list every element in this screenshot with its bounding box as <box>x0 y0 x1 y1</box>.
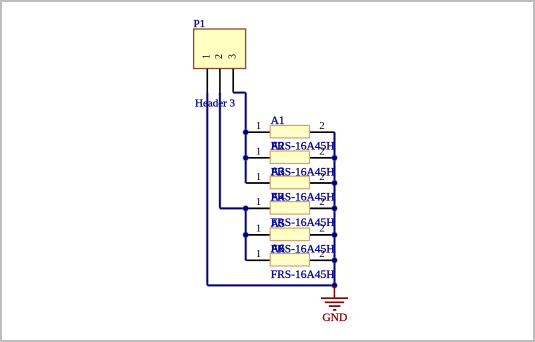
junction right bus row4 <box>331 205 338 212</box>
wire from P1 pin 2 vertical <box>218 93 221 208</box>
fuse A2 left pin 1 wire <box>246 157 271 159</box>
ground bar 1 <box>321 297 348 299</box>
svg-text:1: 1 <box>256 146 262 158</box>
svg-text:A4: A4 <box>271 191 285 203</box>
junction left bus row4 <box>242 205 249 212</box>
wire P1 pin 2 horizontal to lower bus <box>220 207 246 210</box>
fuse A6 right pin 2 wire <box>310 259 335 261</box>
ground bar 3 <box>329 305 341 307</box>
fuse A4 left pin 1 wire <box>246 207 271 209</box>
fuse A3 body <box>270 176 309 189</box>
svg-text:3: 3 <box>227 54 238 59</box>
ground symbol stem <box>333 285 335 298</box>
fuse A2 right pin 2 wire <box>310 157 335 159</box>
svg-text:1: 1 <box>256 248 262 260</box>
fuse A1 left pin 1 wire <box>246 131 271 133</box>
ground bar 2 <box>325 301 344 303</box>
junction GND node <box>331 282 338 289</box>
junction left bus row2 <box>242 154 249 161</box>
svg-text:2: 2 <box>319 196 325 208</box>
junction right bus row6 <box>331 257 338 264</box>
svg-text:A6: A6 <box>271 243 285 255</box>
svg-text:A5: A5 <box>271 218 285 230</box>
fuse A6 body <box>270 254 309 267</box>
wire from P1 pin 1 vertical <box>206 93 209 285</box>
fuse A4 right pin 2 wire <box>310 207 335 209</box>
junction right bus row3 <box>331 180 338 187</box>
fuse A5 body <box>270 228 309 241</box>
wire left bus lower <box>244 208 247 260</box>
junction left bus row5 <box>242 232 249 239</box>
P1 pin 1 stub <box>206 69 208 94</box>
fuse A2 body <box>270 151 309 164</box>
junction left bus row1 <box>242 129 249 136</box>
svg-text:2: 2 <box>319 223 325 235</box>
svg-text:Header 3: Header 3 <box>195 98 236 110</box>
svg-text:2: 2 <box>214 54 225 59</box>
ground bar 4 <box>333 309 336 311</box>
svg-text:P1: P1 <box>194 18 206 30</box>
svg-text:1: 1 <box>256 196 262 208</box>
svg-text:2: 2 <box>319 120 325 132</box>
fuse A4 body <box>270 202 309 215</box>
svg-text:1: 1 <box>202 54 213 59</box>
wire left bus upper <box>244 93 247 183</box>
fuse A5 right pin 2 wire <box>310 234 335 236</box>
junction right bus row5 <box>331 232 338 239</box>
P1 pin 3 stub <box>232 69 234 93</box>
junction right bus row2 <box>331 154 338 161</box>
svg-text:A1: A1 <box>271 115 285 127</box>
fuse A6 left pin 1 wire <box>246 259 271 261</box>
svg-text:FRS-16A45H: FRS-16A45H <box>271 269 335 281</box>
svg-text:2: 2 <box>319 146 325 158</box>
wire P1 pin 3 horizontal <box>233 91 246 94</box>
fuse A1 body <box>270 125 309 137</box>
connector P1 body <box>194 29 246 69</box>
wire right bus <box>333 132 336 285</box>
fuse A3 left pin 1 wire <box>246 182 271 184</box>
svg-text:GND: GND <box>322 312 347 324</box>
wire bottom horizontal to GND node <box>207 284 334 287</box>
fuse A5 left pin 1 wire <box>246 234 271 236</box>
svg-text:1: 1 <box>256 171 262 183</box>
svg-text:2: 2 <box>319 171 325 183</box>
svg-text:2: 2 <box>319 248 325 260</box>
svg-text:A3: A3 <box>271 166 285 178</box>
P1 pin 2 stub <box>219 69 221 94</box>
svg-text:1: 1 <box>256 120 262 132</box>
fuse A3 right pin 2 wire <box>310 182 335 184</box>
svg-text:A2: A2 <box>271 141 285 153</box>
svg-text:1: 1 <box>256 223 262 235</box>
fuse A1 right pin 2 wire <box>310 131 335 133</box>
